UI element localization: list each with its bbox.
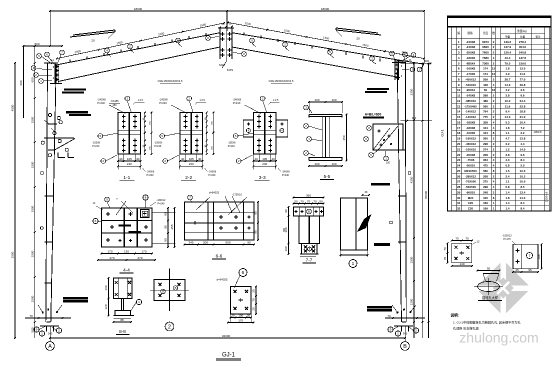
svg-text:139.2: 139.2 [504, 40, 512, 44]
svg-text:13.0: 13.0 [520, 67, 526, 71]
svg-text:105: 105 [127, 157, 132, 161]
anchor plate detail circled 6 [217, 269, 257, 324]
svg-text:1.8: 1.8 [505, 126, 509, 130]
right rafter purlin cleats [244, 32, 397, 64]
svg-text:-350X8: -350X8 [466, 153, 476, 157]
svg-text:数: 数 [492, 31, 495, 35]
svg-text:240: 240 [189, 162, 194, 166]
svg-text:14.3: 14.3 [505, 83, 511, 87]
svg-text:40: 40 [181, 157, 185, 161]
svg-text:d=64025: d=64025 [217, 278, 228, 282]
right column base detail [367, 305, 425, 342]
svg-text:100: 100 [284, 246, 288, 251]
svg-text:15: 15 [457, 115, 461, 119]
svg-text:P=240: P=240 [233, 101, 241, 105]
svg-text:-240X8: -240X8 [97, 98, 106, 102]
svg-text:169: 169 [483, 207, 488, 211]
svg-text:B: B [308, 210, 310, 214]
svg-text:298: 298 [483, 94, 488, 98]
svg-text:340: 340 [403, 332, 408, 336]
svg-text:560: 560 [483, 104, 488, 108]
svg-text:70: 70 [29, 314, 33, 318]
svg-text:12.0: 12.0 [520, 169, 526, 173]
svg-text:104: 104 [483, 131, 488, 135]
svg-text:80: 80 [164, 238, 168, 242]
svg-text:6820: 6820 [482, 45, 489, 49]
svg-text:-140X12: -140X12 [465, 115, 476, 119]
svg-text:-180X8: -180X8 [466, 120, 476, 124]
svg-text:4.2: 4.2 [505, 88, 509, 92]
svg-text:1950.8: 1950.8 [534, 130, 542, 134]
svg-text:8: 8 [145, 196, 147, 200]
svg-text:2: 2 [415, 329, 417, 333]
left rafter top and bottom flange [56, 33, 220, 82]
svg-text:-100X6: -100X6 [466, 131, 476, 135]
plate detail circled 7 right [502, 235, 542, 273]
svg-text:1500: 1500 [30, 161, 34, 168]
svg-text:1: 1 [397, 332, 399, 336]
svg-text:70: 70 [443, 247, 447, 251]
svg-text:GJ-1: GJ-1 [222, 353, 236, 359]
svg-text:580: 580 [483, 169, 488, 173]
left eave extension dimension [19, 45, 24, 118]
svg-text:8.4: 8.4 [520, 201, 524, 205]
svg-text:20: 20 [231, 313, 235, 317]
svg-text:1.1: 1.1 [505, 131, 509, 135]
svg-text:长度: 长度 [483, 31, 489, 35]
svg-text:559: 559 [483, 77, 488, 81]
svg-text:159.0: 159.0 [519, 61, 527, 65]
svg-text:1.2: 1.2 [505, 147, 509, 151]
svg-text:8973: 8973 [482, 40, 489, 44]
right eave gusset detail [364, 116, 432, 165]
svg-text:953: 953 [483, 158, 488, 162]
svg-text:10.2: 10.2 [505, 99, 511, 103]
svg-text:GWL150X64X20X2.5: GWL150X64X20X2.5 [269, 79, 294, 83]
svg-text:70: 70 [313, 199, 317, 203]
svg-text:7-7: 7-7 [306, 258, 313, 263]
left column girt cleats [40, 172, 53, 283]
svg-text:-180X6: -180X6 [466, 56, 476, 60]
right eave leader circles [390, 51, 422, 72]
svg-text:208: 208 [483, 174, 488, 178]
svg-text:8.4: 8.4 [520, 207, 524, 211]
svg-text:9: 9 [390, 328, 392, 332]
svg-text:105: 105 [189, 157, 194, 161]
svg-text:80: 80 [164, 212, 168, 216]
svg-text:-170X6: -170X6 [466, 72, 476, 76]
section detail 1-1 [92, 96, 155, 181]
svg-text:C20: C20 [468, 207, 474, 211]
svg-text:12: 12 [492, 67, 496, 71]
svg-text:11.0: 11.0 [520, 72, 526, 76]
svg-text:7360: 7360 [482, 61, 489, 65]
svg-text:270: 270 [109, 256, 114, 260]
svg-text:775: 775 [483, 115, 488, 119]
svg-text:P=175: P=175 [503, 238, 511, 241]
svg-text:-90X12: -90X12 [466, 88, 476, 92]
svg-text:4.9: 4.9 [505, 72, 509, 76]
svg-text:B: B [403, 344, 407, 350]
svg-text:P=240: P=240 [159, 101, 167, 105]
svg-text:28.7: 28.7 [505, 77, 511, 81]
svg-text:P=240: P=240 [158, 202, 166, 205]
svg-text:12564.8: 12564.8 [544, 191, 548, 202]
svg-text:8.8S: 8.8S [227, 68, 233, 72]
right rafter member label [269, 79, 294, 83]
svg-text:2: 2 [58, 329, 60, 333]
svg-text:1.4: 1.4 [505, 207, 509, 211]
svg-text:18: 18 [492, 88, 496, 92]
anchor bolt hole detail with ellipse [474, 266, 503, 300]
svg-text:104: 104 [483, 126, 488, 130]
svg-text:50: 50 [319, 199, 323, 203]
svg-text:208: 208 [483, 153, 488, 157]
right column flanges [394, 61, 408, 322]
svg-text:95: 95 [528, 268, 532, 272]
svg-text:P=240: P=240 [282, 174, 290, 177]
svg-text:100: 100 [331, 98, 336, 102]
svg-text:-6X185: -6X185 [110, 100, 119, 103]
svg-text:170: 170 [107, 249, 112, 253]
item-1 tapered plate right [336, 28, 381, 41]
svg-text:174: 174 [483, 67, 488, 71]
svg-text:10: 10 [457, 88, 461, 92]
svg-text:120: 120 [104, 304, 108, 309]
svg-text:88: 88 [120, 318, 124, 322]
zhulong watermark logo [475, 260, 531, 316]
gusset plate detail circled 1 [340, 191, 372, 268]
left eave leader circles [31, 50, 64, 83]
left stiffener bar pair upper [62, 88, 86, 93]
svg-text:10.0: 10.0 [520, 180, 526, 184]
svg-text:95: 95 [164, 225, 168, 229]
notes text block [451, 313, 521, 331]
svg-text:24.4: 24.4 [520, 99, 526, 103]
svg-text:1500: 1500 [30, 116, 34, 123]
svg-text:160: 160 [104, 285, 108, 290]
svg-text:-450X12: -450X12 [465, 77, 476, 81]
svg-text:40: 40 [198, 157, 202, 161]
left eave 500 dimension [23, 42, 63, 47]
svg-text:32000: 32000 [222, 334, 231, 338]
svg-text:3.6: 3.6 [520, 88, 524, 92]
svg-text:32: 32 [457, 207, 461, 211]
svg-text:95: 95 [254, 211, 258, 215]
svg-text:7: 7 [529, 254, 531, 258]
svg-text:11: 11 [457, 94, 461, 98]
section detail 3-3 [228, 96, 291, 181]
svg-text:1500: 1500 [30, 250, 34, 257]
svg-text:22: 22 [457, 153, 461, 157]
svg-text:规格: 规格 [467, 31, 473, 35]
svg-text:12: 12 [492, 72, 496, 76]
base plate detail circled 12 [443, 236, 480, 267]
svg-text:6: 6 [242, 270, 245, 276]
figure title GJ-1 [216, 353, 241, 361]
svg-text:9.4: 9.4 [505, 110, 509, 114]
svg-text:-175X495: -175X495 [464, 104, 477, 108]
right sloped rafter dimension line [227, 21, 425, 59]
svg-text:-160X8: -160X8 [466, 67, 476, 71]
svg-text:90: 90 [284, 209, 288, 213]
svg-text:14: 14 [457, 110, 461, 114]
section detail 2-2 [154, 96, 217, 181]
svg-text:-90X10: -90X10 [466, 190, 476, 194]
left column brace connection cluster [41, 113, 75, 157]
svg-text:240.8: 240.8 [519, 51, 527, 55]
svg-text:M20: M20 [219, 63, 225, 67]
svg-text:9.6: 9.6 [520, 153, 524, 157]
svg-text:-250X8: -250X8 [466, 51, 476, 55]
svg-text:21.0: 21.0 [520, 115, 526, 119]
svg-text:2.2: 2.2 [520, 131, 524, 135]
right eave end plate bolts [392, 61, 406, 80]
right rafter leader circles [250, 38, 376, 64]
svg-text:5.0: 5.0 [520, 164, 524, 168]
svg-text:8.5: 8.5 [520, 185, 524, 189]
svg-text:275: 275 [483, 180, 488, 184]
ridge splice plates and bolts [218, 11, 234, 62]
svg-text:25: 25 [252, 289, 256, 293]
svg-text:40: 40 [255, 157, 259, 161]
svg-text:6.6: 6.6 [520, 94, 524, 98]
svg-text:25: 25 [252, 307, 256, 311]
svg-text:18.8: 18.8 [520, 110, 526, 114]
svg-text:13.4: 13.4 [520, 190, 526, 194]
svg-text:0.8: 0.8 [505, 164, 509, 168]
svg-text:9: 9 [36, 328, 38, 332]
svg-text:100: 100 [314, 162, 319, 166]
left base anchor bolt stubs [47, 326, 54, 332]
svg-text:d=64025: d=64025 [209, 191, 220, 195]
svg-text:M24X500: M24X500 [464, 169, 477, 173]
svg-text:18: 18 [457, 131, 461, 135]
svg-text:489: 489 [483, 99, 488, 103]
svg-text:17: 17 [457, 126, 461, 130]
svg-text:255: 255 [170, 224, 174, 229]
svg-text:40: 40 [136, 157, 140, 161]
svg-text:70: 70 [443, 257, 447, 261]
svg-text:编: 编 [457, 31, 460, 35]
right stiffener bar pair upper [365, 88, 389, 93]
svg-text:P=240: P=240 [97, 101, 105, 105]
svg-text:1500: 1500 [11, 251, 15, 258]
right base anchor bolt stubs [402, 326, 409, 332]
svg-text:-240X8: -240X8 [233, 98, 242, 102]
svg-text:4250: 4250 [410, 176, 414, 183]
svg-text:79.5: 79.5 [505, 61, 511, 65]
section detail 5-5 I-beam [304, 98, 348, 180]
svg-text:600: 600 [30, 77, 34, 82]
svg-text:358: 358 [483, 120, 488, 124]
svg-text:45000: 45000 [424, 190, 428, 199]
svg-text:-100X10: -100X10 [465, 147, 476, 151]
svg-text:360: 360 [306, 193, 311, 197]
top overall dimension line [49, 7, 425, 63]
svg-text:-75X500: -75X500 [465, 180, 476, 184]
right axis bubble B [401, 342, 410, 351]
svg-text:1: 1 [352, 261, 355, 267]
svg-text:重量(kg): 重量(kg) [517, 29, 527, 33]
svg-text:794: 794 [483, 110, 488, 114]
right mid stiffener bar [371, 183, 390, 186]
svg-text:16: 16 [457, 120, 461, 124]
left rafter member label [158, 79, 183, 83]
svg-text:说明:: 说明: [451, 313, 459, 318]
left column flanges [44, 63, 58, 322]
svg-text:1.5: 1.5 [505, 169, 509, 173]
svg-text:29: 29 [457, 190, 461, 194]
svg-text:900: 900 [412, 116, 417, 120]
material schedule table [441, 16, 552, 211]
svg-text:60: 60 [484, 88, 488, 92]
svg-text:70: 70 [455, 236, 459, 240]
svg-text:-75X6: -75X6 [467, 158, 475, 162]
svg-text:240: 240 [48, 332, 53, 336]
svg-text:200: 200 [203, 240, 208, 244]
svg-text:27: 27 [457, 180, 461, 184]
svg-text:345: 345 [188, 240, 193, 244]
svg-text:169: 169 [483, 201, 488, 205]
svg-text:350: 350 [342, 135, 346, 140]
svg-text:GWL150X64X20X2.5: GWL150X64X20X2.5 [158, 79, 183, 83]
svg-text:500: 500 [424, 59, 429, 63]
svg-text:198: 198 [537, 254, 541, 259]
svg-text:4500: 4500 [11, 104, 15, 111]
svg-text:-240X8: -240X8 [159, 98, 168, 102]
svg-text:120.4: 120.4 [504, 51, 512, 55]
svg-text:298: 298 [483, 185, 488, 189]
svg-text:130: 130 [124, 249, 129, 253]
svg-text:锚栓孔大样: 锚栓孔大样 [482, 295, 499, 300]
svg-text:170: 170 [238, 318, 243, 322]
svg-text:-240X8: -240X8 [466, 45, 476, 49]
item-1 tapered plate left [70, 30, 115, 43]
svg-text:174: 174 [483, 72, 488, 76]
svg-text:14.0: 14.0 [520, 147, 526, 151]
svg-text:P=240: P=240 [92, 145, 100, 148]
svg-text:100: 100 [314, 98, 319, 102]
svg-text:40: 40 [119, 157, 123, 161]
svg-text:8.4: 8.4 [520, 158, 524, 162]
left axis bubble A [46, 342, 55, 351]
svg-text:1-1: 1-1 [123, 175, 130, 181]
svg-text:B: B [175, 286, 177, 290]
svg-text:21: 21 [457, 147, 461, 151]
svg-text:137.6: 137.6 [519, 56, 527, 60]
left outer height dimension [11, 62, 16, 339]
svg-text:354.0: 354.0 [519, 45, 527, 49]
svg-text:14.3: 14.3 [505, 115, 511, 119]
svg-text:274: 274 [483, 147, 488, 151]
svg-text:1:2.5: 1:2.5 [200, 99, 206, 102]
svg-text:23: 23 [457, 158, 461, 162]
svg-text:10.2: 10.2 [520, 174, 526, 178]
svg-text:8-8: 8-8 [119, 329, 126, 334]
svg-text:1.8: 1.8 [505, 67, 509, 71]
left eave plate fraction label [109, 100, 120, 107]
svg-text:1. GJ-1中柱脚螺栓孔为椭圆孔孔, 其余钢平齐为孔: 1. GJ-1中柱脚螺栓孔为椭圆孔孔, 其余钢平齐为孔 [453, 320, 521, 325]
svg-text:31: 31 [457, 201, 461, 205]
svg-text:95: 95 [254, 230, 258, 234]
left segment height dimension [30, 45, 35, 338]
svg-text:18000: 18000 [134, 7, 143, 11]
svg-text:单重: 单重 [505, 35, 511, 39]
svg-text:3.8: 3.8 [505, 153, 509, 157]
left eave end plate bolts [50, 63, 62, 84]
svg-text:1500: 1500 [410, 256, 414, 263]
svg-text:270: 270 [137, 256, 142, 260]
svg-text:248: 248 [483, 190, 488, 194]
svg-text:70: 70 [300, 199, 304, 203]
svg-text:10.4: 10.4 [520, 120, 526, 124]
svg-text:45: 45 [515, 268, 519, 272]
svg-text:-540X10: -540X10 [465, 83, 476, 87]
svg-text:1: 1 [41, 332, 43, 336]
svg-text:2.4: 2.4 [505, 174, 509, 178]
svg-text:240: 240 [262, 162, 267, 166]
svg-text:A: A [48, 344, 52, 350]
svg-text:4.3: 4.3 [505, 158, 509, 162]
svg-text:13.8: 13.8 [520, 137, 526, 141]
svg-text:-50X10: -50X10 [466, 164, 476, 168]
svg-text:GJ-1: GJ-1 [441, 129, 445, 136]
right outer height dimension [424, 62, 429, 338]
svg-text:298: 298 [483, 142, 488, 146]
right brace label with bar [363, 113, 384, 119]
svg-text:50: 50 [294, 199, 298, 203]
svg-text:5.3: 5.3 [505, 120, 509, 124]
svg-text:C20: C20 [468, 201, 474, 205]
svg-text:278.4: 278.4 [519, 40, 527, 44]
svg-text:-460X12: -460X12 [465, 142, 476, 146]
svg-text:140: 140 [459, 262, 464, 266]
svg-text:-180X8: -180X8 [466, 126, 476, 130]
overall span dimension 32000 [49, 334, 406, 339]
section detail 8-8 [104, 277, 141, 334]
svg-text:2-2: 2-2 [185, 175, 192, 181]
svg-text:23.8: 23.8 [520, 104, 526, 108]
svg-text:备注: 备注 [535, 35, 541, 39]
left stiffener bar pair lower [66, 111, 91, 116]
svg-text:7.2: 7.2 [520, 126, 524, 130]
svg-text:105: 105 [262, 157, 267, 161]
svg-text:170: 170 [141, 249, 146, 253]
svg-text:19: 19 [457, 137, 461, 141]
svg-text:500: 500 [225, 240, 230, 244]
svg-text:-175X10: -175X10 [232, 193, 242, 197]
right segment height dimension [410, 62, 415, 338]
section detail 6-6 [184, 191, 259, 260]
section detail 7-7 [283, 193, 324, 263]
svg-text:1.8: 1.8 [505, 196, 509, 200]
svg-text:6-6: 6-6 [216, 254, 223, 259]
right lower stiffener bar [374, 243, 390, 246]
svg-text:2: 2 [168, 324, 171, 330]
svg-text:385: 385 [283, 227, 286, 232]
section detail 4-4 [93, 195, 176, 273]
svg-text:6: 6 [95, 219, 97, 223]
svg-text:600: 600 [19, 80, 23, 85]
svg-text:24: 24 [457, 164, 461, 168]
right eave 500 dimension [401, 59, 432, 338]
svg-text:12: 12 [457, 99, 461, 103]
svg-text:11.9: 11.9 [505, 104, 511, 108]
svg-text:50: 50 [487, 266, 491, 270]
svg-text:孔调换 叫支撑孔规.: 孔调换 叫支撑孔规. [453, 326, 480, 331]
svg-text:2250: 2250 [410, 88, 414, 95]
